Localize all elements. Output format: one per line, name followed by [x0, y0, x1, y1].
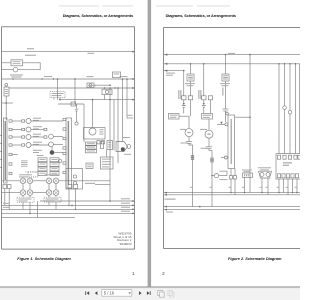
chain 1 drop wire	[183, 71, 185, 96]
control box label	[283, 162, 292, 163]
lamp group 2 dashed box	[44, 197, 61, 202]
AC component box above bus 2	[113, 72, 121, 78]
fuse B leg	[106, 150, 108, 158]
bus 1 mid label	[88, 53, 95, 54]
extra mid labels	[33, 150, 42, 151]
dashed component box low	[28, 172, 38, 177]
PAGE 1 GROUP	[0, 5, 135, 249]
buzzer (filled)	[50, 150, 55, 155]
capacitor on x225 wire	[223, 108, 229, 110]
terminal text box	[101, 157, 114, 169]
junction dots bottom	[109, 200, 111, 202]
wire bus 3	[9, 87, 133, 89]
node on bus B	[199, 206, 201, 208]
coil component 1	[187, 74, 194, 81]
bottom bus 0	[40, 200, 133, 202]
relay label wire	[95, 183, 110, 185]
dropdown caret	[128, 292, 131, 294]
pin labels above control box	[278, 143, 281, 147]
left edge wire stubs	[0, 135, 2, 137]
faint footer text of previous page (page 1 top)	[59, 5, 99, 6]
svg-text:Diagrams, Schematics, or Arran: Diagrams, Schematics, or Arrangements	[166, 14, 236, 18]
coil 1 label	[185, 83, 195, 84]
node bus 4 dots	[109, 99, 111, 101]
fuse block stack B	[50, 158, 59, 176]
dotted leader	[25, 171, 38, 173]
diode D2	[220, 122, 223, 125]
chain 2 diode	[203, 103, 205, 105]
wire bus 4	[60, 99, 133, 101]
lamp indicator 6	[49, 142, 54, 147]
vertical drop x75	[74, 79, 76, 104]
bottom bus 1	[2, 204, 133, 206]
bus right labels	[121, 198, 130, 199]
title block text	[113, 232, 131, 247]
bottom bus 2	[2, 208, 133, 210]
capacitor 2	[206, 146, 212, 148]
aux motor box	[87, 83, 94, 88]
flasher labels	[122, 137, 130, 138]
wire stub chain x76.5	[76, 104, 78, 109]
diode circuit	[214, 174, 218, 178]
schematic frame page 1	[2, 27, 135, 249]
page-view icon 2	[168, 290, 172, 295]
wire relay left	[2, 69, 13, 71]
inner pin boxes	[22, 120, 25, 122]
long vertical wire x250	[249, 55, 251, 193]
note text block	[21, 159, 28, 162]
svg-text:Figure 1. Schematic Diagram: Figure 1. Schematic Diagram	[17, 256, 71, 261]
wire top bus 2	[164, 63, 300, 65]
key switch S1	[11, 60, 23, 66]
toolbar background	[0, 287, 300, 300]
connector pins left	[9, 120, 12, 175]
arrow tick bus 2 b	[41, 78, 43, 80]
bed lift control box (vertical text)	[228, 115, 235, 169]
work lamp group 2	[46, 178, 52, 184]
arrow top bus 3	[164, 70, 167, 72]
control box legs	[278, 179, 280, 193]
svg-text:Figure 2. Schematic Diagram: Figure 2. Schematic Diagram	[228, 256, 282, 261]
gauge lamp 3	[26, 135, 31, 140]
sub boxes below blower	[97, 141, 100, 144]
wire top bus 1	[164, 54, 300, 56]
chain 2 vertical labels	[198, 90, 199, 99]
resistor R1	[243, 173, 253, 177]
right cluster verticals	[278, 64, 280, 148]
lift motor 1	[185, 129, 193, 137]
wire sender junction	[2, 102, 13, 104]
chain 2 connector boxes	[202, 96, 206, 100]
instrument connector strip right	[66, 118, 72, 188]
bottom bus pair B	[164, 206, 300, 208]
PAGE 2 GROUP	[156, 5, 304, 248]
wire top bus	[2, 51, 133, 53]
solenoid label box 2	[202, 113, 213, 119]
work lamp group 1	[20, 178, 26, 184]
last-page button	[147, 291, 150, 295]
node bus 2 end	[132, 78, 134, 80]
first-page button	[84, 291, 87, 295]
lamp wires	[2, 180, 20, 182]
bus 3 label	[88, 85, 96, 86]
circuit breaker label	[258, 167, 271, 168]
wire key switch loop	[18, 63, 40, 70]
bed lift terminals	[229, 176, 232, 179]
bottom bus 3	[2, 212, 133, 214]
relay legs	[68, 189, 70, 205]
inline component y104	[71, 102, 76, 106]
wire bus 2	[2, 78, 133, 80]
arrow tick bus 2 a	[12, 78, 14, 80]
wire top bus 3	[164, 70, 184, 72]
faint footer text of previous page (page 2 top)	[156, 5, 193, 6]
page-view icon 1	[158, 290, 163, 295]
bus 3 label	[166, 73, 175, 74]
control box bottom pin sockets	[277, 174, 280, 178]
fuse component B	[107, 141, 113, 150]
bottom bus pair A	[164, 192, 300, 194]
wire box1 to motor1	[179, 115, 189, 117]
vertical drop x84	[83, 104, 85, 142]
wire bed lift top	[235, 116, 250, 118]
coil 2 label	[220, 83, 230, 84]
next-page button	[139, 291, 142, 295]
nodes top bus 2	[190, 63, 192, 65]
flasher unit	[116, 142, 128, 152]
blower motor M1	[84, 128, 106, 140]
bus 2 labels	[44, 76, 52, 77]
key switch label	[27, 48, 34, 49]
coolant temp sender RT1	[5, 83, 8, 86]
instrument connector strip left	[4, 118, 8, 183]
captions and page numbers	[17, 256, 282, 276]
gauge labels	[33, 118, 41, 119]
junction dots bottom buses	[230, 192, 231, 193]
gauge lamp 4	[26, 143, 31, 148]
bottom bus 4	[2, 216, 75, 218]
long vertical wires right	[109, 88, 111, 201]
component label stack	[86, 142, 97, 153]
lift motor 2	[205, 130, 213, 138]
chain 1 connector boxes	[182, 96, 186, 100]
cross vertical	[37, 201, 39, 217]
small cluster box	[86, 163, 93, 169]
control box top pin sockets	[277, 155, 280, 159]
wires lamps to right	[53, 136, 63, 138]
inline breaker circles	[283, 106, 287, 110]
wires pins to gauges	[12, 120, 22, 122]
terminal circle to bed lift box	[225, 123, 228, 126]
ground label	[165, 199, 176, 200]
chain 1 diode	[183, 103, 185, 105]
circuit breaker	[259, 171, 272, 178]
strip bottom connector boxes	[3, 185, 7, 189]
leg pin labels	[229, 187, 231, 188]
control box pins top wires	[278, 148, 280, 154]
wires gauges to right	[31, 120, 63, 122]
schematic frame page 2	[164, 28, 304, 249]
lamp group 1 label	[19, 174, 32, 175]
vertical drop x57.5	[57, 79, 59, 100]
svg-text:5 / 16: 5 / 16	[104, 290, 115, 295]
node filled	[121, 147, 125, 151]
chain 1 vertical labels	[178, 90, 179, 99]
relay label right	[85, 183, 95, 184]
arrow tick bus 2 c	[52, 78, 54, 80]
node bus 3 dots	[104, 87, 106, 89]
page separator gap	[148, 0, 152, 287]
bus B label	[166, 212, 173, 213]
temp sender dashed label box	[50, 92, 65, 98]
node top bus end	[132, 51, 134, 53]
prev-page button	[95, 291, 98, 295]
power relay label	[10, 74, 23, 75]
relay box K2	[66, 169, 83, 190]
control box U1	[276, 154, 303, 179]
lamp group 1 dashed box	[17, 197, 34, 202]
solenoid label box 1	[169, 113, 180, 119]
coil component 2	[222, 74, 229, 81]
wire key switch left	[2, 62, 11, 64]
chain 2 drop wire	[203, 64, 205, 96]
power relay K1	[13, 67, 18, 72]
svg-text:9948010: 9948010	[120, 242, 132, 246]
gauge lamp 1	[26, 119, 31, 124]
wire sender leg	[5, 96, 7, 120]
wire y104	[58, 103, 84, 105]
resistor R1 label	[242, 170, 252, 171]
capacitor 1	[186, 141, 192, 143]
connector pins right	[63, 118, 66, 173]
right row boxes	[44, 128, 47, 130]
gauge lamp 2	[26, 127, 31, 132]
lamp group 2 label	[45, 174, 58, 175]
junction dots	[109, 87, 111, 89]
fuse component A	[101, 142, 104, 149]
arrow top bus 2	[164, 63, 167, 65]
oil pressure switch S2	[102, 89, 112, 94]
small meter circle	[58, 159, 62, 163]
page number input box	[102, 290, 132, 297]
fuse block stack A	[38, 158, 47, 176]
wire oil switch legs	[104, 95, 106, 100]
svg-text:Diagrams, Schematics, or Arran: Diagrams, Schematics, or Arrangements	[63, 14, 133, 18]
arrow top bus 1	[164, 54, 167, 56]
TOOLBAR	[0, 286, 300, 300]
bus left labels	[3, 203, 9, 204]
lamp indicator 5	[49, 134, 54, 139]
